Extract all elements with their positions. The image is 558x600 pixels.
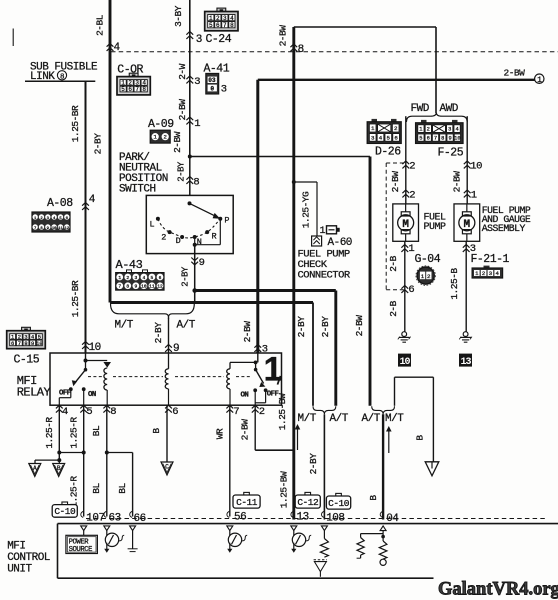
svg-text:8: 8 (441, 136, 444, 142)
svg-text:2-BY: 2-BY (177, 161, 187, 182)
svg-text:5: 5 (151, 275, 154, 281)
connector C-11 (ECU) (244, 492, 250, 495)
mechanical link dashes (88, 376, 102, 378)
junction node A-41 wire to horizontal run (188, 155, 192, 159)
ECU entry terminal (130, 526, 136, 531)
svg-text:1.25-R: 1.25-R (69, 476, 80, 508)
switch contact N (193, 235, 197, 239)
node 2 marker (pump pin 2) (402, 190, 409, 197)
wire AWD branch to fuel pump assy (466, 116, 468, 204)
ECU entry terminal (321, 526, 327, 531)
svg-text:2: 2 (427, 273, 431, 280)
svg-text:2-BL: 2-BL (94, 14, 105, 36)
svg-text:2: 2 (259, 406, 265, 418)
sheet link circled 1 (535, 74, 544, 83)
svg-text:2: 2 (409, 190, 415, 202)
wire 2-BY horizontal rail lower (M/T) (110, 301, 313, 304)
wire pin2 2-BW joining 1.25-BW (254, 405, 256, 450)
contact arc (dashed) (158, 219, 220, 238)
connector pass-through curl (321, 511, 323, 517)
svg-text:3: 3 (371, 135, 375, 142)
relay coil 3 (229, 362, 231, 368)
relay diode (86, 360, 108, 362)
svg-text:1.25-BR: 1.25-BR (70, 105, 81, 142)
svg-text:10: 10 (399, 357, 410, 368)
svg-text:A-09: A-09 (148, 118, 174, 131)
svg-text:7: 7 (135, 86, 139, 93)
svg-text:11: 11 (58, 227, 63, 231)
svg-text:B: B (368, 495, 379, 501)
resistor right (pin 04) (382, 534, 384, 541)
MFI control unit box (58, 523, 558, 525)
svg-text:2-BY: 2-BY (308, 453, 319, 475)
dashed harness boundary line upper (111, 51, 558, 53)
svg-text:RELAY: RELAY (17, 386, 51, 400)
svg-text:6: 6 (128, 86, 132, 93)
svg-text:FWD: FWD (411, 103, 430, 115)
connector pass-through curl (227, 511, 229, 517)
switch contact L (156, 217, 160, 221)
wire from P contact to output (219, 219, 221, 245)
branch to grounds A and B (57, 458, 61, 462)
svg-text:2: 2 (126, 275, 129, 281)
node 1 marker (assy pin 1) (464, 190, 471, 197)
svg-text:1: 1 (194, 118, 200, 130)
svg-text:7: 7 (118, 284, 121, 290)
svg-text:7: 7 (18, 341, 21, 347)
connector pass-through curl (104, 511, 106, 517)
merge brace A/T|M/T (right pair) (372, 406, 395, 414)
node 3 marker (A-41 pin 3) (186, 76, 193, 83)
svg-text:2-BY: 2-BY (320, 316, 331, 338)
wire vertical down to FWD/AWD brace (435, 27, 437, 113)
wire 2-BW bold vertical to relay coil (node 3) (256, 80, 259, 353)
svg-text:1.25-BW: 1.25-BW (277, 393, 288, 430)
svg-text:8: 8 (298, 44, 304, 56)
svg-text:11: 11 (149, 284, 155, 290)
ground B (53, 464, 65, 477)
svg-text:A: A (33, 465, 37, 472)
svg-text:1: 1 (408, 243, 414, 255)
node 8 marker on 2-BW (290, 44, 297, 51)
svg-text:2-BY: 2-BY (180, 266, 190, 287)
switch contact R (205, 230, 209, 234)
svg-text:1: 1 (118, 275, 121, 281)
node 3 marker (463, 245, 470, 252)
svg-text:BL: BL (91, 483, 102, 494)
wire stub top-left (12, 29, 14, 47)
chassis ground inside ECU (314, 559, 327, 561)
svg-text:2: 2 (427, 127, 430, 133)
svg-text:10: 10 (470, 161, 482, 173)
svg-text:6: 6 (159, 275, 162, 281)
connector C-10 right (ECU) (336, 493, 342, 496)
svg-text:SOURCE: SOURCE (69, 546, 93, 554)
relay pin 8 marker (103, 405, 110, 412)
connector C-12 (ECU) (305, 492, 311, 495)
svg-text:F-21-1: F-21-1 (471, 253, 510, 266)
svg-text:13: 13 (297, 512, 309, 524)
svg-text:A-60: A-60 (328, 237, 352, 249)
svg-text:9: 9 (199, 257, 205, 269)
ground A (29, 464, 41, 477)
svg-text:2-BW: 2-BW (240, 419, 251, 441)
svg-text:SWITCH: SWITCH (119, 184, 156, 196)
shield number 10 (398, 354, 411, 367)
svg-text:OFF: OFF (59, 390, 71, 398)
svg-text:5: 5 (419, 136, 422, 142)
fuel pump and gauge assembly (motor) (454, 204, 480, 241)
sub fusible link bus bar (25, 80, 95, 82)
svg-text:D-26: D-26 (375, 146, 401, 159)
svg-text:6: 6 (394, 135, 398, 142)
svg-text:L: L (150, 220, 155, 230)
svg-text:10: 10 (36, 341, 42, 347)
relay pin 4 marker (56, 405, 63, 412)
connector C-10 (ECU) (62, 502, 68, 505)
svg-text:7: 7 (233, 406, 239, 418)
connector A-60 (312, 236, 322, 246)
tie bar pins 4/5 (57, 451, 61, 455)
svg-text:8: 8 (110, 406, 116, 418)
wire FWD branch to fuel pump (405, 116, 407, 204)
svg-text:CONTROL: CONTROL (7, 552, 50, 564)
ECU entry terminal (291, 526, 297, 531)
svg-text:BL: BL (91, 425, 102, 436)
wire pin7 WR to ECU 56 (229, 405, 231, 516)
svg-text:3: 3 (196, 34, 202, 46)
AWD alternative dashed box (385, 163, 387, 290)
node 10 marker (F-25 pin 10) (464, 161, 471, 168)
connector pass-through curl (380, 511, 382, 517)
svg-text:5: 5 (121, 86, 125, 93)
wire 2-BY vertical from upper rail (334, 291, 337, 406)
svg-text:A/T: A/T (330, 413, 349, 425)
svg-text:F-25: F-25 (438, 147, 464, 160)
svg-text:AWD: AWD (440, 103, 459, 115)
svg-text:M/T: M/T (385, 413, 404, 425)
svg-text:12: 12 (157, 284, 163, 290)
wire M/T branch to page arrow B (394, 377, 396, 406)
svg-text:C-15: C-15 (14, 354, 40, 367)
svg-text:3: 3 (221, 84, 227, 96)
svg-text:B: B (415, 435, 426, 441)
node 8 marker (switch pin 8) (186, 177, 193, 184)
svg-text:P: P (224, 215, 229, 225)
svg-text:2-BY: 2-BY (153, 322, 164, 344)
svg-text:3: 3 (489, 270, 492, 277)
svg-text:3: 3 (194, 76, 200, 88)
wire pin8 BL to ECU 63 (106, 405, 108, 516)
svg-text:C-10: C-10 (54, 506, 76, 517)
node 4 marker on 2-BL wire (107, 44, 114, 51)
svg-text:2-BW: 2-BW (451, 171, 462, 193)
node 1 marker (401, 245, 408, 252)
resistor network (pin 04) (382, 531, 384, 534)
svg-text:5: 5 (387, 135, 391, 142)
svg-text:4: 4 (142, 275, 145, 281)
node 3 marker (C-24 pin 3) (186, 32, 193, 39)
svg-text:10: 10 (52, 227, 57, 231)
shield number 13 (459, 354, 472, 367)
MFI relay box (50, 353, 282, 405)
relay entry from pin 10 (85, 353, 87, 361)
relay pin 2 marker (252, 405, 259, 412)
resistor (pin 108) (323, 531, 325, 539)
ECU entry terminal (227, 526, 233, 531)
wire 3-BY / 2-W / 2-BW vertical (to A-41) (189, 0, 191, 157)
switch contact 2 (168, 230, 172, 234)
svg-text:A/T: A/T (177, 320, 196, 332)
switch contact D (180, 235, 184, 239)
merged wire to relay pin 9 (168, 318, 170, 354)
svg-text:5: 5 (209, 22, 213, 29)
svg-text:1: 1 (537, 76, 542, 85)
svg-text:MFI: MFI (7, 541, 25, 553)
svg-text:2: 2 (161, 232, 166, 242)
wire horizontal 2-BW run to right (190, 156, 370, 158)
wire pin5 1.25-R to ECU 107 (83, 405, 85, 516)
svg-text:D: D (176, 236, 181, 246)
svg-text:PUMP: PUMP (424, 222, 447, 233)
svg-text:C-12: C-12 (297, 497, 319, 508)
node 3 marker (C-15 pin 3) (254, 345, 261, 352)
svg-text:6: 6 (11, 341, 14, 347)
ECU entry terminal (380, 526, 386, 531)
svg-text:56: 56 (234, 512, 246, 524)
svg-text:2-BW: 2-BW (390, 171, 401, 193)
svg-text:ASSEMBLY: ASSEMBLY (482, 223, 526, 234)
svg-text:4: 4 (62, 406, 68, 418)
M/T / A/T merge bracket to MFI relay pin 9 (111, 304, 195, 320)
svg-text:0: 0 (210, 86, 214, 93)
svg-text:2: 2 (164, 133, 167, 140)
svg-text:9: 9 (134, 284, 137, 290)
svg-text:2: 2 (216, 15, 220, 22)
switch wiper arm to P (190, 203, 216, 216)
node 4 marker on 1.25-BR (82, 203, 89, 210)
relay switch (right, ON/OFF) (257, 353, 259, 362)
svg-text:C-11: C-11 (236, 497, 258, 508)
svg-text:9: 9 (31, 341, 34, 347)
svg-text:3: 3 (448, 127, 451, 133)
relay pin 7 marker (226, 405, 233, 412)
wire horizontal top run to FWD/AWD (294, 26, 436, 28)
dashed ECU boundary (86, 518, 545, 520)
svg-text:ON: ON (88, 391, 96, 399)
svg-text:2-B: 2-B (388, 300, 399, 316)
FWD/AWD split brace (406, 113, 467, 122)
svg-text:1.25-YG: 1.25-YG (301, 191, 312, 228)
svg-text:6: 6 (408, 284, 414, 296)
wire 2-BL vertical feed (109, 0, 112, 303)
switch output wire (194, 245, 196, 303)
svg-text:B: B (151, 428, 162, 434)
node 1 marker on 2-BW wire (186, 117, 193, 124)
svg-text:3: 3 (223, 15, 227, 22)
branch BL to ECU 66 (105, 451, 109, 455)
svg-text:2-B: 2-B (388, 255, 399, 271)
wire 2-BW vertical (A/T path right) (369, 157, 372, 406)
svg-text:6: 6 (216, 22, 220, 29)
svg-text:2: 2 (482, 270, 485, 277)
node 9 marker (C-15 pin 9) (165, 345, 172, 352)
wire pin4 1.25-R (58, 405, 60, 460)
node 9 marker (switch pin 9) (191, 258, 198, 265)
svg-text:1.25-BR: 1.25-BR (70, 280, 81, 317)
svg-text:4: 4 (379, 135, 383, 142)
svg-text:10: 10 (454, 136, 460, 142)
node 2 marker (D-26 pin 2) (402, 161, 409, 168)
svg-text:1.25-R: 1.25-R (69, 417, 80, 449)
svg-text:3: 3 (134, 275, 137, 281)
svg-text:R: R (212, 232, 217, 242)
svg-text:2-W: 2-W (177, 63, 188, 79)
svg-text:2-BW: 2-BW (504, 68, 526, 79)
ground C (161, 462, 173, 475)
relay pin 5 marker (80, 405, 87, 412)
svg-text:2-BW: 2-BW (177, 99, 188, 121)
junction to A-60 check connector (292, 180, 296, 184)
svg-text:C-24: C-24 (206, 33, 232, 46)
switch contact P (218, 217, 222, 221)
svg-text:1: 1 (471, 190, 477, 202)
junction node on switch output (192, 288, 197, 293)
svg-text:7: 7 (223, 22, 227, 29)
svg-text:A-08: A-08 (47, 197, 73, 210)
svg-text:2-BW: 2-BW (354, 315, 365, 337)
connector F-25 (421, 120, 427, 123)
svg-text:C: C (165, 463, 169, 470)
wire 2-BY vertical from lower rail (312, 303, 314, 406)
svg-text:2-BY: 2-BY (93, 133, 104, 155)
svg-text:M/T: M/T (298, 413, 317, 425)
transistor (pin 56) (229, 531, 231, 536)
connector D-26 (372, 119, 378, 122)
connector pass-through curl (291, 511, 293, 517)
svg-text:1: 1 (371, 125, 375, 132)
svg-text:13: 13 (460, 357, 471, 368)
svg-text:3-BY: 3-BY (173, 5, 184, 27)
connector C-15 (22, 327, 31, 331)
connector pass-through curl (130, 511, 132, 517)
svg-text:10: 10 (141, 284, 147, 290)
wire from N contact to output (194, 237, 196, 245)
svg-text:N: N (197, 237, 202, 247)
svg-text:9: 9 (448, 136, 451, 142)
svg-text:GalantVR4.org: GalantVR4.org (438, 580, 558, 600)
svg-text:8: 8 (24, 341, 27, 347)
svg-text:1.25-B: 1.25-B (449, 268, 460, 300)
svg-text:CONNECTOR: CONNECTOR (298, 270, 351, 282)
relay pin 6 marker (165, 405, 172, 412)
svg-text:1: 1 (419, 127, 422, 133)
svg-text:6: 6 (427, 136, 430, 142)
merged wire B to ECU pin 04 (382, 414, 384, 519)
svg-text:1: 1 (421, 273, 425, 280)
svg-text:2: 2 (409, 161, 415, 173)
svg-text:4: 4 (89, 194, 96, 206)
svg-text:1: 1 (320, 226, 326, 237)
svg-text:WR: WR (214, 428, 225, 439)
power source block (83, 531, 85, 536)
fuel pump (motor) (393, 204, 419, 241)
svg-text:4: 4 (230, 15, 234, 22)
transistor (pin 13) (293, 531, 295, 536)
ECU entry terminal (104, 526, 110, 531)
svg-text:M/T: M/T (115, 320, 134, 332)
svg-text:4: 4 (455, 127, 458, 133)
relay coil 1 (104, 368, 107, 390)
svg-text:C-10: C-10 (328, 498, 350, 509)
on contact to pin 2 (254, 390, 256, 405)
wire 1.25-BR from sub fusible link (85, 81, 87, 353)
direction arrow up (297, 429, 299, 451)
svg-text:2: 2 (394, 125, 398, 132)
svg-text:G-04: G-04 (415, 253, 441, 266)
wire pin6 B to ground C (166, 405, 168, 462)
wire 2-BW horizontal to sheet link 1 (258, 79, 535, 81)
open lead (pin 66) (132, 531, 134, 549)
direction arrow up (388, 431, 390, 454)
svg-text:2-BY: 2-BY (296, 316, 307, 338)
connector C-24 (217, 8, 226, 12)
svg-text:1.25-BW: 1.25-BW (278, 471, 289, 508)
svg-text:5: 5 (86, 406, 92, 418)
wire 2-BY horizontal rail upper (A/T) (195, 289, 336, 292)
svg-text:1: 1 (264, 351, 283, 389)
wire 2-BY into park/neutral switch (189, 157, 191, 196)
wire 1.25-B assy to ground (465, 241, 467, 331)
wire 2-B fuel pump to ground (404, 241, 406, 331)
svg-text:8: 8 (230, 22, 234, 29)
off contact jog to pin 2 (265, 390, 267, 403)
switch common node (188, 201, 192, 205)
connector pass-through curl (81, 511, 83, 517)
node 6 marker (401, 286, 408, 293)
on contact to pin 5 (83, 389, 85, 405)
off contact to pin 4 (70, 389, 72, 398)
svg-text:8: 8 (142, 86, 146, 93)
svg-text:8: 8 (193, 177, 199, 189)
merged wire 2-BY to ECU pin 108 (323, 414, 325, 519)
svg-text:2-BW: 2-BW (242, 321, 253, 343)
merge brace M/T|A/T (left pair) (313, 406, 336, 414)
ECU entry terminal (81, 526, 87, 531)
svg-text:03: 03 (208, 77, 216, 84)
park/neutral position switch box (146, 195, 233, 253)
svg-text:8: 8 (126, 284, 129, 290)
svg-text:1.25-R: 1.25-R (44, 417, 55, 449)
svg-text:2-BW: 2-BW (278, 25, 289, 47)
svg-text:2-BW: 2-BW (172, 131, 183, 153)
relay switch (left, ON/OFF) (85, 361, 87, 370)
transistor (pin 63) (106, 531, 108, 536)
svg-text:7: 7 (434, 136, 437, 142)
svg-text:A/T: A/T (362, 413, 381, 425)
relay coil 2 (from pin 9) (168, 353, 170, 369)
wire 2-BW / 1.25-BW long vertical (fuel pump feed) (292, 27, 295, 520)
off-page arrow (open triangle) (425, 462, 439, 476)
svg-text:10: 10 (89, 342, 101, 354)
svg-text:6: 6 (172, 406, 178, 418)
svg-text:B: B (57, 465, 61, 472)
svg-text:ON: ON (241, 392, 249, 400)
node 10 marker (C-15 pin 10) (82, 342, 89, 349)
svg-text:BL: BL (117, 483, 128, 494)
svg-text:UNIT: UNIT (7, 564, 32, 576)
svg-text:1: 1 (209, 15, 213, 22)
